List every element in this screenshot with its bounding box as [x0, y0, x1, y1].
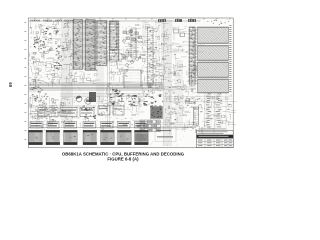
svg-text:FIGURE 6-8 (A): FIGURE 6-8 (A) [107, 156, 139, 161]
svg-text:69: 69 [8, 82, 13, 87]
